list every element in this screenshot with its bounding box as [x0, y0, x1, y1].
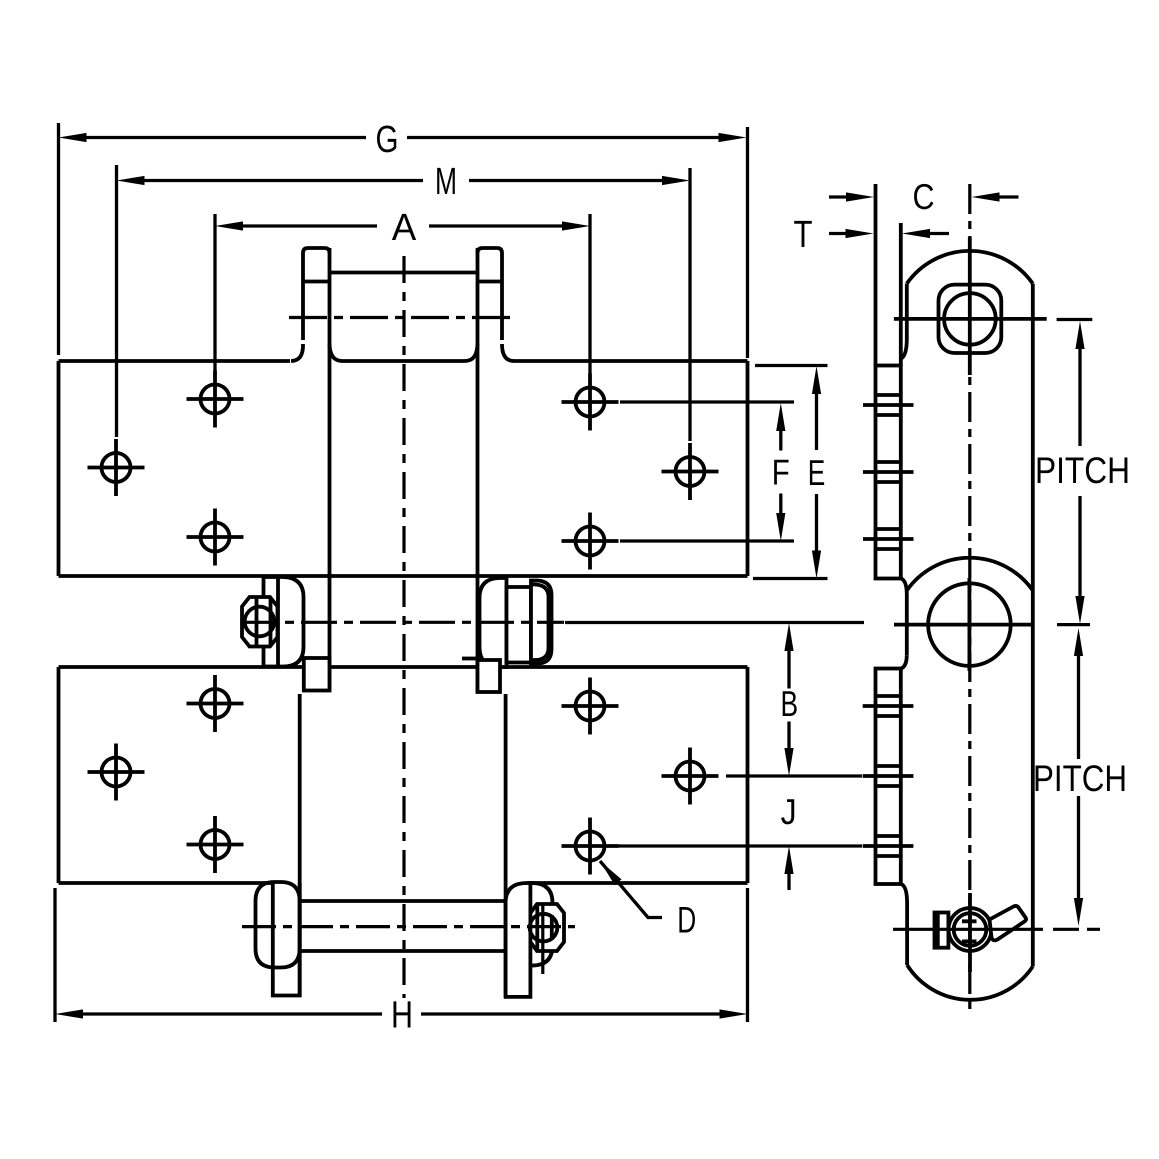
- arrowhead G left: [59, 133, 87, 142]
- PITCH upper extension lines: [1057, 320, 1093, 625]
- centerline chain vertical plan view: [402, 256, 405, 998]
- A dimension line: [243, 224, 563, 227]
- link plate left edge upper: [905, 284, 909, 341]
- arrowhead B top: [784, 623, 793, 651]
- PITCH lower dimension line: [1077, 656, 1080, 899]
- svg-text:E: E: [808, 452, 826, 493]
- B dimension line: [787, 651, 790, 749]
- arrowhead E top: [812, 366, 821, 394]
- right pin head inner capsule: [533, 585, 549, 661]
- bolt hole top plate right-upper: [576, 388, 605, 417]
- svg-text:J: J: [781, 791, 797, 832]
- svg-text:PITCH: PITCH: [1035, 450, 1130, 491]
- right pin head capsule middle joint: [531, 581, 552, 664]
- side view lower plate edge-on: [876, 669, 901, 885]
- bolt hole bottom plate left-upper: [201, 689, 230, 718]
- top pin circle: [944, 293, 996, 345]
- H dimension line: [83, 1012, 721, 1015]
- arrowhead T right: [902, 229, 930, 238]
- middle roller crosshair vertical: [968, 578, 972, 671]
- top pin crosshair horizontal: [894, 317, 1047, 321]
- svg-text:T: T: [794, 214, 813, 256]
- F extension lines: [620, 402, 794, 541]
- bottom right nut face lines: [537, 905, 552, 950]
- left lug left flare: [291, 344, 303, 361]
- link plate left edge middle: [905, 594, 909, 655]
- D leader line: [600, 861, 662, 918]
- left lug bend line: [303, 280, 330, 284]
- E extension lines: [753, 366, 828, 579]
- centerline bottom pin side view: [893, 928, 1043, 931]
- PITCH upper dimension line: [1078, 349, 1081, 597]
- svg-text:G: G: [376, 119, 399, 161]
- top attachment plate bottom edge: [59, 574, 748, 578]
- G dimension line: [86, 136, 719, 139]
- G extension lines: [59, 123, 748, 358]
- middle pin washer left: [264, 577, 279, 667]
- nut face lines left: [257, 598, 271, 647]
- middle joint left fillet lower: [901, 655, 907, 668]
- bottom right pin washer capsule: [530, 883, 552, 966]
- arrowhead PITCH1 top: [1075, 321, 1084, 349]
- bottom attachment plate top edge: [59, 665, 748, 669]
- cotter pin bent end: [990, 906, 1027, 940]
- J extension line: [618, 844, 862, 847]
- bottom right pin end circle: [530, 914, 558, 942]
- B extension lines: [565, 623, 864, 777]
- middle pin hex nut left: [242, 597, 278, 647]
- right sidebar line outer link: [504, 694, 508, 997]
- T dimension lines: [829, 232, 949, 235]
- side view attachment lug inner face: [899, 223, 903, 366]
- svg-text:F: F: [772, 452, 790, 493]
- bolt hole bottom plate left-mid: [102, 758, 131, 787]
- top pin crosshair vertical: [968, 237, 972, 375]
- svg-text:A: A: [392, 207, 417, 249]
- lower plate hole edge lines row2: [863, 766, 914, 786]
- chain bushing edge top joint: [330, 271, 478, 275]
- svg-text:H: H: [391, 995, 413, 1037]
- lower link top dome: [907, 558, 1033, 591]
- svg-text:M: M: [435, 161, 457, 203]
- bottom attachment plate bottom edge: [59, 881, 748, 885]
- arrowhead G right: [719, 133, 747, 142]
- arrowhead C right: [972, 192, 1000, 201]
- link plate left edge lower: [905, 902, 909, 965]
- bottom attachment plate left edge: [57, 667, 61, 883]
- left lug right flare: [330, 344, 343, 361]
- arrowhead F top: [776, 403, 785, 431]
- bolt hole bottom plate right-lower (D): [576, 832, 605, 861]
- middle roller crosshair horizontal: [894, 623, 1034, 627]
- centerline chain vertical side view: [968, 184, 971, 1013]
- bottom right strap: [506, 883, 531, 997]
- arrowhead C left: [846, 192, 874, 201]
- upper plate hole edge lines row1: [863, 395, 914, 415]
- svg-text:B: B: [781, 683, 799, 724]
- arrowhead F bottom: [776, 513, 785, 541]
- centerline bottom joint pin axis: [242, 925, 575, 928]
- bottom pin crosshair vertical: [968, 893, 972, 972]
- C dimension lines: [829, 195, 1019, 198]
- M dimension line: [144, 179, 663, 182]
- left bent lug top joint: [303, 248, 330, 340]
- bottom right cotter crosshair vertical: [541, 903, 544, 974]
- bolt hole bottom plate right-mid: [676, 762, 705, 791]
- centerline top joint pin axis: [289, 316, 516, 319]
- centerline middle joint pin axis: [242, 621, 564, 624]
- arrowhead D leader: [600, 861, 622, 885]
- right lug left flare: [465, 344, 478, 361]
- top pin bearing block: [939, 285, 1002, 353]
- arrowhead H right: [720, 1009, 748, 1018]
- J dimension line: [787, 874, 790, 891]
- right strap tab middle joint: [478, 660, 501, 692]
- arrowhead PITCH2 top: [1074, 628, 1083, 656]
- bolt hole top plate right-lower: [576, 527, 605, 556]
- arrowhead PITCH1 bottom: [1075, 596, 1084, 624]
- side view attachment lug outer face: [874, 184, 878, 366]
- right bent lug top joint: [478, 248, 503, 340]
- E dimension line: [815, 394, 818, 552]
- arrowhead H left: [55, 1009, 83, 1018]
- svg-text:D: D: [677, 900, 696, 941]
- arrowhead J bottom: [784, 846, 793, 874]
- arrowhead E bottom: [812, 551, 821, 579]
- top attachment plate right edge: [746, 361, 750, 576]
- right lug bend line: [478, 280, 503, 284]
- bolt hole bottom plate left-lower: [201, 830, 230, 859]
- M extension lines: [117, 165, 691, 441]
- top attachment plate top edge: [59, 359, 748, 363]
- arrowhead M right: [662, 176, 690, 185]
- A extension lines: [215, 214, 590, 374]
- link plate top dome: [907, 251, 1033, 284]
- arrowhead M left: [117, 176, 145, 185]
- bolt hole bottom plate right-upper: [576, 692, 605, 721]
- left sidebar line outer link: [298, 694, 302, 996]
- left sidebar line inner link: [328, 248, 332, 690]
- pin end circle left: [245, 607, 275, 637]
- middle pin head capsule left: [277, 577, 304, 667]
- bottom left pin end capsule: [256, 882, 300, 968]
- bottom attachment plate right edge: [746, 667, 750, 883]
- arrowhead A right: [562, 221, 590, 230]
- right sidebar line inner link: [476, 248, 480, 692]
- side view upper plate edge-on: [876, 366, 901, 579]
- link plate upper fillet: [901, 341, 907, 359]
- H extension lines: [55, 888, 748, 1022]
- bolt hole top plate right-mid: [676, 457, 705, 486]
- arrowhead PITCH2 bottom: [1074, 898, 1083, 926]
- svg-text:PITCH: PITCH: [1033, 758, 1127, 799]
- bolt hole top plate left-mid: [102, 453, 131, 482]
- lower plate hole edge lines row3: [863, 836, 914, 856]
- lower plate hole edge lines row1: [863, 696, 914, 716]
- bushing end line middle joint: [462, 657, 478, 661]
- right lug stadium middle joint: [480, 578, 507, 667]
- bottom pin inner circle: [954, 913, 987, 946]
- arrowhead A left: [215, 221, 243, 230]
- bolt hole top plate left-lower: [201, 523, 230, 552]
- svg-text:C: C: [913, 176, 935, 217]
- arrowhead T left: [846, 229, 874, 238]
- bottom pin cotter hole lines: [962, 921, 977, 941]
- bottom left strap: [273, 883, 300, 996]
- right washer middle joint: [507, 587, 532, 663]
- middle roller circle: [928, 583, 1011, 666]
- bottom pin body: [300, 901, 506, 951]
- left strap tab middle joint: [304, 658, 330, 691]
- upper plate hole edge lines row2: [863, 462, 914, 482]
- upper plate hole edge lines row3: [863, 529, 914, 549]
- link plate bottom end arc: [907, 965, 1033, 1000]
- F dimension line: [779, 431, 782, 514]
- bottom right hex nut: [530, 904, 564, 951]
- bottom pin square nut: [935, 913, 949, 948]
- top attachment plate left edge: [57, 361, 61, 576]
- right lug right flare: [502, 344, 514, 361]
- bottom joint left fillet: [901, 884, 907, 902]
- arrowhead B bottom: [784, 748, 793, 776]
- bolt hole top plate left-upper: [201, 385, 230, 414]
- bottom pin outer circle: [949, 908, 992, 951]
- middle joint left fillet upper: [901, 579, 907, 595]
- link plate right edge: [1031, 284, 1035, 967]
